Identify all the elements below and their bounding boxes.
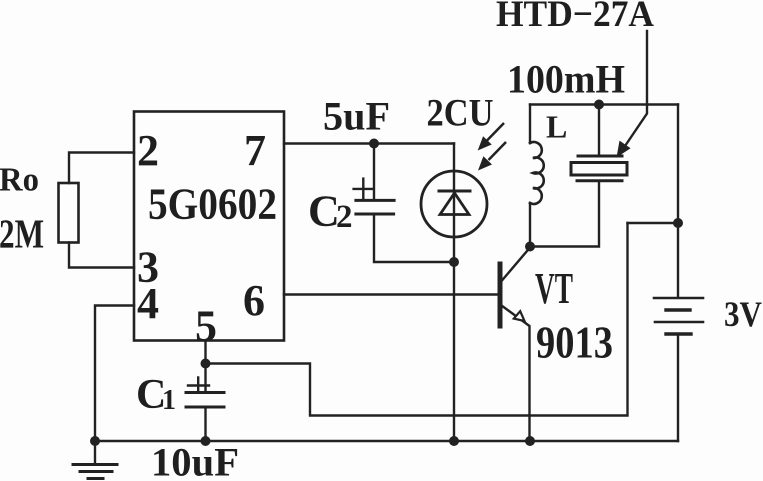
junction node top rail piezo xyxy=(594,100,604,110)
svg-text:4: 4 xyxy=(137,279,159,328)
svg-text:5: 5 xyxy=(195,302,217,351)
wire battery plus to pin5 net xyxy=(628,222,679,224)
svg-text:C: C xyxy=(308,187,340,236)
svg-text:2M: 2M xyxy=(0,211,44,257)
transistor collector xyxy=(502,248,531,282)
junction node pin5/C1 xyxy=(201,359,211,369)
junction node ground xyxy=(90,436,100,446)
svg-text:VT: VT xyxy=(535,264,573,313)
transistor emitter xyxy=(502,306,530,442)
junction node collector/inductor xyxy=(525,242,535,252)
photodiode VD 2CU vertical wire xyxy=(453,144,455,442)
wire pin7 rail xyxy=(284,142,454,144)
junction node battery plus xyxy=(673,218,683,228)
junction node pin7/C2 xyxy=(369,139,379,149)
junction node photodiode bottom xyxy=(449,436,459,446)
piezo sounder HTD-27A element xyxy=(598,105,600,157)
photodiode circle xyxy=(421,171,487,237)
battery GB 3V xyxy=(654,297,703,300)
svg-text:6: 6 xyxy=(243,276,265,325)
transistor VT base bar xyxy=(498,264,503,326)
pointer arrowhead HTD-27A xyxy=(617,141,631,158)
wire right rail to battery xyxy=(677,105,679,298)
wire pin2 to resistor top xyxy=(69,153,134,184)
ground xyxy=(94,441,96,463)
svg-text:100mH: 100mH xyxy=(507,57,625,102)
svg-text:Ro: Ro xyxy=(0,162,39,199)
inductor L xyxy=(529,105,531,144)
wire pin6 to base xyxy=(284,293,498,295)
photodiode triangle xyxy=(440,193,469,215)
transistor emitter open arrowhead xyxy=(514,311,525,321)
svg-text:2CU: 2CU xyxy=(427,92,494,135)
capacitor C2 xyxy=(373,144,375,200)
IC U1 5G0602 box xyxy=(134,112,284,341)
capacitor C1 xyxy=(188,384,209,386)
wire ground rail bottom xyxy=(95,440,678,442)
light arrow 2 at photodiode xyxy=(489,142,507,160)
svg-text:10uF: 10uF xyxy=(151,440,239,481)
junction node C2 bottom/photodiode xyxy=(449,257,459,267)
svg-text:7: 7 xyxy=(244,126,266,175)
svg-text:3V: 3V xyxy=(724,294,762,334)
svg-text:1: 1 xyxy=(162,385,176,416)
junction node emitter bottom xyxy=(525,436,535,446)
pointer line from HTD-27A label xyxy=(623,31,647,149)
wire pin5 down through C1 top xyxy=(204,341,206,393)
svg-text:2: 2 xyxy=(137,126,159,175)
photodiode cathode bar xyxy=(439,190,470,193)
svg-text:2: 2 xyxy=(336,199,353,235)
svg-text:5G0602: 5G0602 xyxy=(148,180,277,229)
resistor Ro xyxy=(59,183,79,243)
svg-text:9013: 9013 xyxy=(536,317,613,368)
light arrow 1 at photodiode xyxy=(487,123,504,141)
junction node C1 bottom xyxy=(201,436,211,446)
svg-text:HTD−27A: HTD−27A xyxy=(496,0,654,35)
wire pin4 down to ground rail xyxy=(95,306,134,442)
wire resistor bottom to pin3 xyxy=(69,243,134,268)
wire top rail xyxy=(530,103,678,105)
svg-text:5uF: 5uF xyxy=(323,94,390,139)
svg-text:L: L xyxy=(546,109,567,145)
